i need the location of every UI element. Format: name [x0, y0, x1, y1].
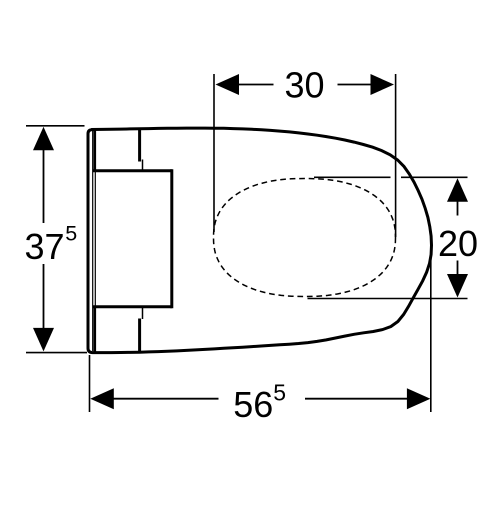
dim 37.5: line segment bottom: [43, 264, 45, 329]
dim 20: bottom extension line: [308, 298, 468, 300]
dim 56.5: left extension line: [89, 355, 91, 412]
bottom mounting tab right edge: [138, 319, 141, 353]
dim 56.5: line segment left: [113, 398, 219, 400]
dim 56.5: left arrow: [90, 388, 114, 409]
bottom step line: [142, 307, 144, 319]
svg-text:5: 5: [65, 222, 77, 246]
svg-text:30: 30: [284, 65, 324, 106]
dim 30: line segment right: [338, 84, 372, 86]
dim 56.5: right extension line: [430, 246, 432, 412]
mounting plate rectangle top edge: [93, 169, 172, 172]
inner thin wall line: [92, 131, 94, 351]
svg-text:20: 20: [438, 223, 478, 264]
dim 56.5: line segment right: [305, 398, 408, 400]
dim 30: line segment left: [238, 84, 274, 86]
dim 37.5: bottom extension line: [26, 352, 87, 354]
dim 37.5: top extension line: [26, 125, 85, 127]
svg-text:37: 37: [25, 226, 65, 267]
dim 20: top extension line: [314, 176, 391, 178]
bottom mounting tab left edge: [94, 307, 97, 352]
dim 30: right extension line: [395, 74, 397, 237]
dim 30: right arrow: [371, 74, 395, 95]
svg-text:5: 5: [273, 379, 286, 405]
dim 30: left arrow: [216, 74, 240, 95]
dim 37.5: top arrow: [33, 127, 54, 151]
inner thin wall line 2: [94, 171, 96, 307]
top mounting tab right edge: [138, 129, 141, 162]
top step line: [142, 160, 144, 171]
toilet outer outline: [88, 128, 432, 353]
mounting plate rectangle bottom edge: [93, 305, 172, 308]
mounting plate rectangle right edge: [170, 169, 173, 308]
dim 20: line segment top: [457, 201, 459, 216]
dim 20: top arrow: [447, 178, 468, 202]
dim 20: line segment bottom: [457, 261, 459, 276]
dim 30: left extension line: [213, 74, 215, 232]
dim 37.5: bottom arrow: [33, 328, 54, 352]
dim 20: bottom arrow: [447, 274, 468, 298]
dim 37.5: line segment top: [43, 149, 45, 223]
dashed inner bowl ellipse: [214, 179, 396, 297]
dim 56.5: right arrow: [407, 388, 431, 409]
top mounting tab left edge: [94, 130, 97, 171]
svg-text:56: 56: [233, 384, 273, 425]
